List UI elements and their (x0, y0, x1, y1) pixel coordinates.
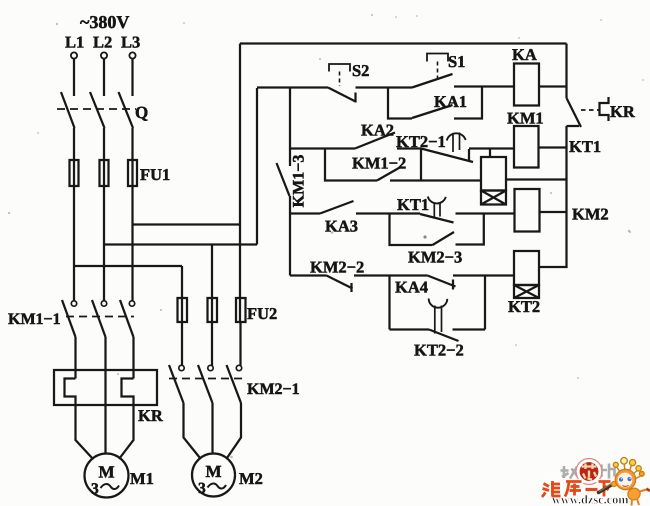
svg-text:KM1−1: KM1−1 (8, 311, 61, 328)
svg-text:M: M (206, 462, 222, 481)
wire FU2 feed b (211, 245, 213, 323)
time contact KT1 stems (434, 204, 440, 219)
time contact KT2-2 stems (435, 306, 442, 334)
wire left subrail upper (289, 88, 291, 149)
contact KM2-3 blade (433, 232, 455, 245)
contact KA3 blade (320, 201, 354, 214)
wire L1 tap to FU2 (74, 265, 182, 267)
time contact KT2-1 umbrella (447, 133, 466, 140)
svg-text:KA2: KA2 (361, 121, 394, 140)
switch Q linkage dashed (57, 108, 136, 110)
pushbutton S1 blade (412, 74, 453, 88)
watermark char xin (chip) cream in magnifier (582, 464, 597, 480)
watermark magnifier ring (578, 461, 600, 483)
svg-text:KM2−3: KM2−3 (408, 248, 462, 267)
wei (542, 481, 561, 497)
contact KM1-3 blade (277, 163, 290, 196)
time contact KT1 cup (428, 197, 446, 204)
svg-text:M1: M1 (130, 469, 154, 488)
svg-text:KT2−1: KT2−1 (396, 132, 446, 151)
wire riser x240 (239, 44, 241, 323)
wire row2 left (290, 147, 355, 149)
svg-text:L2: L2 (93, 33, 112, 52)
wire FU2 feed a (181, 266, 183, 322)
wire L3 drop (131, 59, 133, 96)
contactor KM2-1 blades (169, 365, 241, 403)
wire below FU2 (182, 322, 241, 366)
svg-text:KM2−1: KM2−1 (247, 381, 300, 398)
svg-text:L1: L1 (65, 33, 84, 52)
contactor coil KM2 (515, 189, 540, 232)
contactor KM1-1 linkage dashed (66, 316, 134, 318)
svg-text:KA4: KA4 (395, 278, 428, 297)
wire KA3 to KT1 (356, 212, 420, 214)
fuse FU1 c (128, 160, 137, 186)
wire KT1 to KM2 coil (456, 212, 515, 214)
wire right rail lower (539, 126, 567, 267)
wire KT2-2 branch right riser (484, 276, 486, 330)
svg-text:M: M (99, 463, 115, 482)
time contact KT2-1 fixed tick (468, 149, 470, 162)
mascot head (615, 469, 635, 489)
wire KT2-1 to KM1 coil (469, 147, 514, 149)
svg-text:FU2: FU2 (247, 304, 277, 323)
thermal relay KR box (54, 370, 157, 405)
wire KM1 coil to rail (539, 146, 567, 148)
ku (565, 482, 582, 497)
thermal contact KR fixed tick (567, 125, 580, 127)
wire KA1 branch left drop (388, 88, 412, 119)
wire riser x257 (256, 88, 258, 245)
contactor KM2-1 linkage dashed (169, 378, 244, 380)
svg-text:KM1−2: KM1−2 (352, 154, 406, 173)
fuse FU1 b (100, 160, 109, 186)
wire KM1-2 branch left drop (325, 149, 377, 181)
svg-text:KM2: KM2 (572, 205, 609, 224)
wire KA4 to KT2 coil (453, 274, 514, 276)
fuse FU2 a (178, 298, 188, 322)
terminal L1 (71, 52, 77, 58)
svg-text:3: 3 (198, 480, 206, 497)
wire KM2 coil to rail (540, 211, 567, 213)
switch Q pole 2 blade (90, 92, 105, 128)
svg-text:KM2−2: KM2−2 (310, 258, 364, 277)
wire KM2-3 right riser (456, 214, 484, 245)
svg-text:www.dzsc.com: www.dzsc.com (552, 493, 629, 506)
mascot body (626, 486, 642, 501)
contact KA1 blade (412, 105, 453, 118)
svg-text:KT2: KT2 (508, 297, 540, 316)
wire row1 left (257, 86, 328, 88)
time contact KT2-2 blade (429, 330, 459, 342)
svg-text:~380V: ~380V (80, 12, 129, 32)
fuse FU1 a (70, 160, 79, 186)
pushbutton S2 blade (328, 88, 356, 102)
contact KA2 blade (355, 133, 395, 149)
pushbutton S2 fixed tick (354, 93, 356, 103)
svg-text:S2: S2 (352, 61, 369, 80)
terminal L3 (129, 52, 135, 58)
wire S2 to S1 (356, 86, 413, 88)
fuse FU2 b (208, 298, 218, 322)
pushbutton S2 cap (329, 64, 350, 72)
motor M2 (192, 454, 235, 497)
thermal relay KR heater left (65, 379, 94, 460)
wire KA1 branch right riser (454, 87, 482, 119)
contactor coil KM1 (514, 126, 539, 168)
svg-text:KA3: KA3 (325, 217, 358, 236)
time contact KT2-2 cup (429, 299, 448, 308)
time relay coil KT1 (481, 157, 506, 191)
wire right rail upper (565, 44, 567, 99)
switch Q pole 3 blade (119, 92, 134, 128)
wire KM1-2 right (390, 179, 481, 181)
time relay coil KT1 delay box (481, 191, 506, 205)
contact KM2-2 fixed tick (350, 283, 352, 292)
wire L1 below FU1 (73, 186, 75, 301)
contactor KM2-1 terminals (179, 365, 184, 370)
watermark char zhao (find) gray (561, 466, 581, 479)
contact KM1-2 blade (377, 167, 402, 181)
wire L2 tap to control (104, 243, 257, 245)
wire L1 drop (73, 59, 75, 96)
contact KA4 fixed tick (452, 280, 454, 290)
svg-text:KR: KR (610, 102, 636, 121)
time contact KT2-1 stems (453, 133, 460, 153)
svg-text:KA: KA (512, 45, 537, 64)
wire KT1 coil top stub (489, 149, 491, 158)
yi (586, 488, 598, 491)
mascot pen (599, 480, 621, 493)
wire S1 to KA coil (454, 85, 514, 87)
wire row3 left (290, 212, 320, 214)
svg-text:Q: Q (135, 103, 148, 122)
svg-text:KT1: KT1 (397, 195, 429, 214)
svg-text:M2: M2 (239, 469, 263, 488)
svg-text:FU1: FU1 (140, 165, 170, 184)
switch Q pole 1 blade (61, 92, 75, 128)
thermal contact KR blade (567, 98, 582, 127)
contact KA4 blade (428, 276, 456, 287)
wire row5 left (390, 328, 430, 330)
svg-text:S1: S1 (448, 52, 465, 71)
svg-text:KT2−2: KT2−2 (414, 341, 464, 360)
time contact KT1 blade (420, 214, 454, 223)
time relay coil KT2 (514, 251, 539, 285)
motor M1 (85, 454, 129, 498)
thermal relay KR heater right (119, 379, 134, 460)
wire Q to FU1 (74, 128, 133, 186)
svg-text:3: 3 (91, 481, 99, 498)
contact KM1-3 top stub (289, 149, 291, 167)
contactor KM1-1 blades (62, 300, 134, 337)
pushbutton S1 cap (427, 54, 448, 62)
wire KA coil to rail (539, 85, 567, 87)
time contact KT2-1 blade (421, 149, 473, 163)
watermark char pian (piece) gray (602, 464, 615, 479)
watermark text weikuyixia red (542, 481, 611, 497)
svg-text:KR: KR (138, 406, 164, 425)
wire KA2 to KT2-1 (397, 147, 421, 149)
wire KT1 coil to rail (506, 178, 567, 180)
thermal contact KR dashed link (581, 109, 599, 111)
wire control top rail (240, 42, 567, 44)
terminal L2 (101, 52, 107, 58)
thermal relay KR heater symbol (600, 97, 609, 121)
contactor KM1-1 terminals (71, 301, 76, 306)
fuse FU2 c (236, 298, 246, 322)
wire KT2-2 branch left drop (388, 276, 390, 330)
mascot eyes (619, 477, 623, 481)
wire KM2-1 to M2 (184, 403, 242, 458)
wire row4 left (290, 274, 327, 276)
wire KM2-2 to KA4 (354, 274, 428, 276)
time relay coil KT2 delay box (514, 285, 539, 298)
contact KM2-2 blade (327, 276, 353, 289)
svg-text:KM1: KM1 (507, 109, 544, 128)
relay coil KA (514, 64, 539, 106)
mascot mouth (623, 485, 629, 486)
svg-text:L3: L3 (121, 33, 140, 52)
svg-text:KM1−3: KM1−3 (291, 155, 308, 208)
wire L3 below FU1 (131, 186, 133, 301)
wire KT2-1 junction drop (420, 149, 422, 181)
pushbutton S1 stem dashed (437, 62, 439, 81)
wire KM1-1 to KR (76, 337, 134, 453)
wire L2 below FU1 (103, 186, 105, 301)
pushbutton S2 stem dashed (339, 72, 341, 87)
mascot antenna balls (613, 458, 644, 480)
wire L2 drop (103, 59, 105, 96)
xia (599, 482, 611, 497)
wire L3 tap to control (133, 223, 241, 225)
svg-text:KA1: KA1 (434, 92, 467, 111)
wire row5 right (453, 328, 486, 330)
wire KM2-3 branch left drop (390, 214, 433, 246)
svg-text:KT1: KT1 (569, 137, 601, 156)
wire left subrail lower (289, 196, 291, 276)
